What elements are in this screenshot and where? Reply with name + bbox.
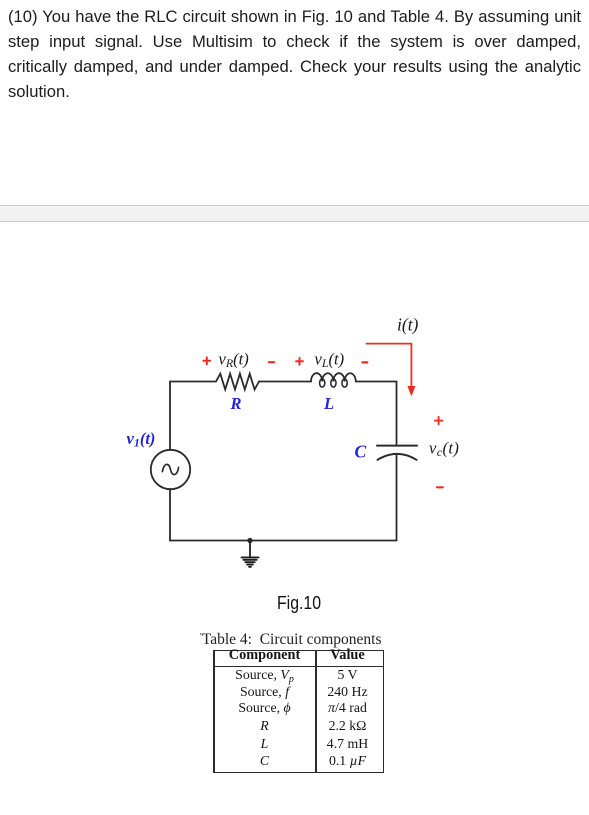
label v1(t) [127, 429, 156, 450]
label i(t) [397, 315, 419, 335]
wire capacitor to bottom-right corner [396, 456, 398, 541]
table title [200, 631, 460, 649]
svg-text:vL(t): vL(t) [315, 350, 345, 371]
left wire lower segment [169, 489, 171, 541]
junction node dot [247, 538, 252, 543]
svg-text:C: C [355, 442, 367, 462]
label - (capacitor bottom) [437, 486, 443, 488]
svg-text:vR(t): vR(t) [219, 350, 249, 371]
svg-text:vc(t): vc(t) [429, 439, 459, 460]
wire L to top-right corner and down to capacitor [356, 382, 397, 446]
label vc(t) [429, 439, 459, 460]
label + (capacitor top) [435, 417, 442, 424]
wire between R and L [259, 381, 311, 383]
wire top-left segment [170, 381, 216, 383]
source V1 circle [151, 450, 190, 489]
bottom wire [170, 540, 397, 542]
capacitor C plates [377, 446, 417, 460]
label L [323, 394, 334, 413]
svg-text:v1(t): v1(t) [127, 429, 156, 450]
Fig.10 caption [7, 593, 589, 614]
inductor L [311, 373, 356, 387]
table 4 [0, 0, 589, 1]
label C [355, 442, 367, 462]
svg-text:L: L [323, 394, 334, 413]
resistor R [216, 374, 259, 390]
svg-text:R: R [230, 394, 242, 413]
label R [230, 394, 242, 413]
current arrow i(t) [367, 344, 416, 397]
left wire upper segment [169, 382, 171, 450]
problem statement paragraph [8, 5, 581, 104]
label + vL(t) - [296, 350, 367, 371]
divider band [0, 205, 589, 222]
svg-text:i(t): i(t) [397, 315, 419, 335]
ground [242, 541, 259, 567]
label + vR(t) - [203, 350, 274, 371]
